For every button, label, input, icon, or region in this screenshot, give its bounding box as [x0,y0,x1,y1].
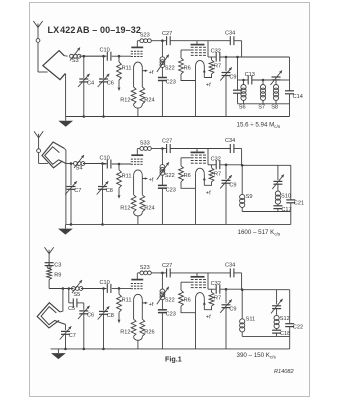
wire loop up lead [60,289,63,312]
wire C6 branch [103,56,105,78]
wire box bottom row3 [242,335,290,337]
wire S3 to rail [79,55,106,57]
triode-hexode U1 filament [134,62,143,67]
resistor R7 [211,57,213,60]
node C6 tap [102,55,105,58]
svg-text:S7: S7 [258,105,265,111]
svg-text:+f: +f [149,178,154,184]
wire loop down lead to C7 [65,324,67,330]
capacitor C18 [272,329,281,331]
wire C9 to bus [225,76,227,117]
svg-text:S33: S33 [140,141,150,147]
svg-text:C18: C18 [280,331,290,337]
svg-text:R12: R12 [120,205,130,211]
pentode U2 filament [196,60,205,66]
wire S7 lead [262,80,264,85]
pentode U2 plate [191,151,205,153]
ground row1 [65,117,67,121]
wire trimmer to S12 [276,309,278,316]
node C8 tap row3 [102,287,105,290]
node padder branch [236,56,239,59]
wire C9 branch [225,57,227,71]
trimmer capacitor over S10 [273,180,282,182]
wire S22 to C23 [161,300,163,310]
wire C34 to drop [234,148,242,150]
wire plate rail [137,148,140,150]
node S22 branch [161,147,164,150]
wire S6 lead [243,80,245,85]
U2 filament + lead [203,302,206,305]
node C5 tap [68,287,71,290]
triode-hexode U1 plate [131,46,143,48]
svg-text:C6: C6 [107,80,114,86]
svg-text:S3: S3 [72,58,79,64]
svg-text:R7: R7 [214,296,221,302]
node C4 tap [83,55,86,58]
wire S22 to C23 [161,175,163,185]
wire C8 branch row3 [103,289,105,311]
filament + lead arrow [142,70,147,72]
svg-text:C27: C27 [162,139,172,145]
wire C23 to ground bus [161,188,163,224]
capacitor C23 [158,184,167,186]
wire S22 to C23 [161,67,163,77]
wire C3 to R9 [48,266,50,269]
pentode U2 plate [191,44,205,46]
svg-text:C6: C6 [87,312,94,318]
wire trimmer to right rail [276,79,290,81]
resistor R7 [211,289,213,292]
wire R7 return [204,182,211,186]
wire C9 to bus [225,183,227,224]
resistor R6 [181,49,191,51]
resistor R12 [131,195,136,212]
wire C8 to bus row3 [103,314,105,349]
capacitor C34 [229,144,231,153]
svg-text:R12: R12 [120,98,130,104]
wire R6 to filament [181,182,196,189]
wire filament return [134,212,143,216]
wire C5 branch [68,289,70,303]
capacitor C12 [233,89,242,91]
svg-text:R14082: R14082 [274,369,294,375]
svg-text:R11: R11 [122,66,132,72]
wire C7 branch [70,164,72,186]
capacitor C10 [106,160,108,169]
svg-text:R11: R11 [122,298,132,304]
svg-text:S22: S22 [165,65,175,71]
wire plate rail to C34 [197,272,230,274]
wire right rail lower [289,94,291,117]
resistor R9 [47,268,52,279]
svg-text:C10: C10 [100,48,110,54]
wire rail to control grid [112,55,131,57]
wire plate rail to C27 [151,148,166,150]
wire right rail row2 upper [290,165,292,200]
inductor S22 [160,165,165,170]
wire S12 to C18 [276,329,278,331]
svg-text:C32: C32 [211,156,221,162]
wire plate rail [137,272,140,274]
wire R6 to filament [181,74,196,81]
loop aerial L3 inner [41,307,65,325]
node S11 branch [241,288,244,291]
wire antenna down lead [37,43,39,72]
U2 filament + lead [203,177,206,180]
capacitor C21 [286,199,295,201]
svg-text:C23: C23 [166,80,176,86]
antenna A2 [38,138,40,149]
wire S22 branch [161,273,163,289]
resistor R12 [131,87,136,104]
capacitor C14 [285,90,294,92]
wire padder branch [237,57,239,90]
wire plate rail to C34 [197,148,230,150]
ground row3 [57,349,59,353]
node C9 branch [225,164,228,167]
capacitor C34 [229,36,231,45]
triode-hexode U1 plate [131,154,143,156]
resistor R6 [181,157,191,159]
capacitor C7 (variable) row3 [61,330,70,332]
node R11 tap [118,55,121,58]
resistor R24 [140,87,145,104]
node C6 bus junction row3 [83,348,86,351]
svg-text:C34: C34 [225,138,235,144]
wire ground bus row1 [66,116,290,118]
resistor R11 [118,288,120,294]
wire C9 branch [225,289,227,303]
svg-text:C23: C23 [166,187,176,193]
node C9 branch [225,288,228,291]
svg-text:+f: +f [206,315,211,321]
capacitor C7 (variable) [67,186,76,188]
svg-text:S23: S23 [140,265,150,271]
wire S10 to C17 [277,204,279,206]
svg-text:C13: C13 [245,72,255,78]
svg-text:C10: C10 [100,280,110,286]
wire C8 to bus [102,189,104,224]
svg-text:C7: C7 [74,188,81,194]
svg-text:S4: S4 [76,166,83,172]
wire C34 drop row3 [241,273,243,290]
capacitor C17 [273,205,282,207]
capacitor C9 (variable) [222,72,231,74]
wire R7 return [204,74,211,78]
pentode U2 grids [191,154,194,156]
pentode U2 grids [191,279,194,281]
svg-text:R7: R7 [214,171,221,177]
capacitor C32 [215,285,217,294]
ground row2 [64,224,66,228]
inductor S22 [160,289,165,294]
svg-text:C17: C17 [281,207,291,213]
wire C4 branch [83,56,85,78]
triode-hexode U1 grids [131,50,133,52]
svg-text:R24: R24 [144,98,154,104]
wire plate drop to C32 line [207,273,209,289]
svg-text:S6: S6 [239,105,246,111]
wire loop down lead [64,148,66,224]
wire C9 to bus [225,308,227,349]
triode-hexode U1 plate [131,279,143,281]
trimmer capacitor over S8 [272,76,281,78]
wire filament return [134,336,143,340]
wire main grid rail [105,287,107,289]
svg-text:C34: C34 [225,263,235,269]
svg-text:C21: C21 [294,201,304,207]
wire plate rail to C34 [197,40,230,42]
wire plate rail to U2 [170,148,197,150]
svg-text:C22: C22 [293,324,303,330]
svg-text:15.6 ÷ 5.94 Mc/s: 15.6 ÷ 5.94 Mc/s [237,122,281,130]
wire C6 to bus [103,82,105,117]
wire S7 to coil bus [262,101,264,104]
svg-text:C9: C9 [229,182,236,188]
inductor S3 (variable) [70,54,74,58]
svg-text:C34: C34 [225,30,235,36]
U2 filament + lead [203,70,206,73]
node S22 branch [161,272,164,275]
wire aerial return [64,73,67,75]
wire C4 to bus [83,82,85,117]
pentode U2 plate [191,276,205,278]
wire coil bus [238,103,290,105]
wire C7 to bus [70,189,72,224]
capacitor C9 (variable) [222,304,231,306]
wire C13 to S7 [252,79,276,81]
loop aerial L2 outer [42,142,64,168]
capacitor C5 [72,298,74,307]
capacitor C8 (variable) row3 [99,310,108,312]
wire C34 drop [241,41,243,57]
capacitor C32 [215,53,217,62]
wire U2 plate stem [196,41,198,45]
wire C5 to C6 branch [77,302,84,304]
inductor S5 (variable) [72,287,76,291]
wire C6 to bus row3 [83,314,85,349]
resistor R11 [118,164,120,170]
inductor S23 [140,271,144,275]
svg-text:C23: C23 [166,312,176,318]
wire C18 to box bottom [276,333,278,336]
resistor R11 [118,56,120,62]
wire right rail row3 lower [289,327,291,349]
svg-text:R6: R6 [184,173,191,179]
inductor S11 [240,319,245,324]
wire C17 to box bottom [277,209,279,212]
wire S8 lead [275,80,277,85]
wire right rail row2 lower [290,203,292,225]
wire S22 branch [161,41,163,57]
svg-text:R6: R6 [184,298,191,304]
wire plate drop to C32 line [207,41,209,57]
svg-text:R12: R12 [120,330,130,336]
node S22 branch [161,39,164,42]
capacitor C34 [229,268,231,277]
svg-text:+f: +f [206,190,211,196]
wire rail to control grid [112,163,131,165]
wire C34 drop row2 [241,149,243,166]
wire C7 to bus row3 [65,334,67,349]
wire U2 plate stem [196,273,198,277]
wire loop to rail row2 [66,163,71,165]
svg-text:C3: C3 [54,262,61,268]
svg-text:C8: C8 [107,313,114,319]
svg-text:+f: +f [149,302,154,308]
svg-text:S8: S8 [271,105,278,111]
capacitor C27 [166,36,168,45]
wire C34 to drop [234,272,242,274]
antenna A3 [48,254,50,265]
wire padder to coil bus [237,93,239,104]
capacitor C4 (variable) [79,78,88,80]
wire right rail row3 upper [289,290,291,324]
inductor S4 (variable) [74,162,78,166]
wire S10 lead upper [277,165,279,180]
wire C8 branch [102,164,104,186]
wire S9 to box bottom [241,208,243,212]
node C8 tap [101,162,104,165]
node C7 tap [70,162,73,165]
wire plate rail to C27 [151,40,166,42]
pentode U2 grids [191,46,194,48]
svg-text:S9: S9 [246,194,253,200]
wire R6 to filament [181,306,196,313]
svg-text:R9: R9 [54,272,61,278]
wire plate rail [137,40,140,42]
wire antenna to C3 [48,260,50,262]
capacitor C10 [106,284,108,293]
wire plate stem [136,273,138,279]
wire S11 to box bottom [241,332,243,337]
wire aerial to S3 [64,55,67,58]
svg-text:C10: C10 [100,156,110,162]
antenna A1 [37,28,39,39]
wire plate stem [136,149,138,155]
wire C23 to ground bus [161,313,163,349]
wire rail to control grid [112,287,131,289]
capacitor C8 (variable) [98,186,107,188]
loop aerial L2 inner [45,147,66,165]
filament + lead arrow [142,302,147,304]
node C4 bus junction [83,115,86,118]
wire C23 to ground bus [161,80,163,116]
wire plate stem [136,41,138,47]
filament + lead arrow [142,178,147,180]
svg-text:Fig.1: Fig.1 [165,355,182,364]
wire U2 plate stem [196,149,198,153]
capacitor C32 [215,160,217,169]
wire rail row3 left [49,288,73,290]
node S7 tap [262,79,265,82]
svg-text:S23: S23 [140,33,150,39]
svg-text:+f: +f [149,70,154,76]
svg-text:C8: C8 [106,188,113,194]
capacitor C6 (variable) [99,78,108,80]
svg-text:C27: C27 [162,31,172,37]
node C9 branch [225,56,228,59]
capacitor C9 (variable) [222,179,231,181]
node S9 branch [241,164,244,167]
wire C6 branch [83,303,85,310]
node C8 bus junction [101,223,104,226]
trimmer capacitor over S12 [272,305,281,307]
svg-text:C5: C5 [68,306,75,312]
wire output line row3 [241,289,290,291]
triode-hexode U1 filament [134,294,143,299]
wire S12 lead upper [276,290,278,305]
wire R9 to rail [48,280,50,289]
inductor S7 [260,85,265,90]
node C6 bus junction [102,115,105,118]
loop aerial L3 outer [37,303,60,328]
svg-text:S22: S22 [165,173,175,179]
inductor S33 [140,147,144,151]
wire output line row2 [241,164,291,166]
capacitor C22 [285,323,294,325]
node C8 bus junction row3 [102,348,105,351]
wire C32 line [220,164,241,166]
capacitor C13 [247,76,249,85]
svg-text:C27: C27 [162,263,172,269]
wire C9 branch [225,165,227,179]
svg-text:C9: C9 [229,307,236,313]
inductor S6 [241,85,246,90]
pentode U2 filament [196,168,205,174]
inductor S9 [240,194,245,199]
resistor R7 [211,165,213,168]
wire C32 line [220,56,241,58]
svg-text:C9: C9 [229,75,236,81]
wire S9 lead [241,165,243,194]
inductor S10 [275,191,280,196]
svg-text:R7: R7 [214,64,221,70]
wire output line row1 [241,56,290,58]
wire plate rail to C27 [151,272,166,274]
svg-text:C32: C32 [211,281,221,287]
capacitor C23 [158,77,167,79]
svg-text:C4: C4 [87,80,94,86]
svg-text:R6: R6 [184,65,191,71]
inductor S23 [140,39,144,43]
wire ground bus row3 [51,348,290,350]
wire filament return [134,104,143,108]
wire C32 line [220,288,241,290]
wire S4 to rail [83,163,106,165]
resistor R12 [131,319,136,336]
wire C34 to drop [234,40,242,42]
svg-text:S5: S5 [73,292,80,298]
wire R11 AGC arrow [118,80,120,91]
resistor R26 [140,319,145,336]
wire S11 lead [241,290,243,319]
svg-text:C32: C32 [211,49,221,55]
wire main grid rail [84,55,107,57]
triode-hexode U1 grids [131,158,133,160]
node C7 bus junction row3 [64,348,67,351]
wire S22 branch [161,149,163,165]
inductor S22 [160,57,165,62]
wire S6 to coil bus [243,101,245,104]
wire plate rail to U2 [170,40,197,42]
svg-text:LX 422 AB – 00–19–32: LX 422 AB – 00–19–32 [48,25,141,35]
svg-text:C7: C7 [69,333,76,339]
wire main grid rail [103,163,107,165]
svg-text:S11: S11 [246,317,256,323]
svg-text:S12: S12 [280,316,290,322]
pentode U2 filament [196,293,205,299]
